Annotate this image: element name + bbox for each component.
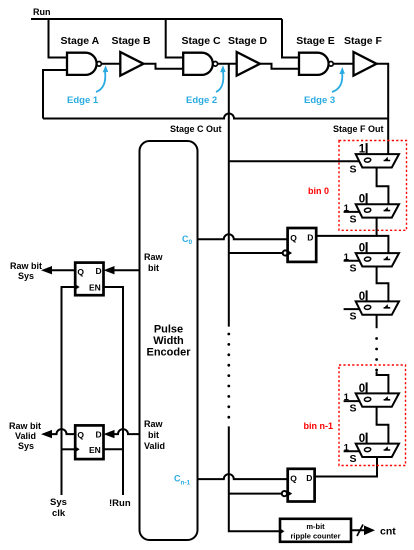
wire constant input stub xyxy=(366,193,368,204)
svg-text:Pulse: Pulse xyxy=(154,324,183,336)
svg-text:S: S xyxy=(349,311,356,323)
svg-text:0: 0 xyxy=(359,433,365,445)
mux M6 (bin n-1 bottom) xyxy=(344,433,399,465)
wire select S stub xyxy=(344,211,361,213)
pin 1 input marker xyxy=(384,446,391,451)
pin 1 input marker xyxy=(384,256,391,260)
wire FF3 Q output arrow xyxy=(49,269,75,271)
pin 0 input marker xyxy=(364,158,371,163)
wire select S stub xyxy=(344,260,361,262)
svg-text:D: D xyxy=(307,233,313,243)
svg-text:0: 0 xyxy=(359,243,365,255)
wire chain resume into mux5 xyxy=(377,372,389,394)
pin 0 input marker xyxy=(364,257,371,262)
svg-text:Sys: Sys xyxy=(50,497,67,508)
wire FF3 clock from Sys clk vertical xyxy=(62,287,76,495)
box bin n-1 (red dashed) xyxy=(339,365,406,466)
svg-text:Stage D: Stage D xyxy=(228,35,268,47)
svg-text:bin n-1: bin n-1 xyxy=(304,421,334,431)
mux body trapezoid xyxy=(356,204,399,217)
wire Run rail xyxy=(31,18,282,20)
mux M4 xyxy=(344,290,399,322)
svg-text:1: 1 xyxy=(344,252,350,263)
wire FF3 EN to !Run vertical xyxy=(104,287,124,495)
wire F output down right side (Stage F Out vertical) xyxy=(377,64,389,154)
svg-text:1: 1 xyxy=(359,144,366,156)
pin 0 input marker xyxy=(364,208,371,213)
svg-text:1: 1 xyxy=(344,392,350,403)
wire mux3 output to mux4 xyxy=(377,267,389,302)
flip-flop FF1 (bin 0 capture) xyxy=(288,228,317,262)
svg-text:Encoder: Encoder xyxy=(146,347,191,359)
wire FF2 clock line from Stage C Out vertical xyxy=(229,493,282,495)
svg-text:0: 0 xyxy=(359,291,365,303)
wire constant input stub xyxy=(366,143,368,154)
svg-text:0: 0 xyxy=(359,383,365,395)
bubble FF2 inverted clock xyxy=(282,491,287,496)
mux body trapezoid xyxy=(356,253,399,266)
wire select S stub xyxy=(344,450,361,452)
wire D output to E bottom input xyxy=(260,64,299,69)
svg-text:S: S xyxy=(349,214,356,226)
svg-text:Sys: Sys xyxy=(18,271,34,281)
dots mux chain ellipsis xyxy=(375,337,378,371)
svg-text:Q: Q xyxy=(77,267,84,277)
svg-text:bit: bit xyxy=(148,430,159,440)
wire constant input stub xyxy=(366,290,368,301)
mux M5 (bin n-1 top) xyxy=(344,382,399,414)
svg-text:Stage C: Stage C xyxy=(181,35,221,47)
pin 1 input marker xyxy=(384,207,391,212)
svg-text:clk: clk xyxy=(52,508,66,519)
mux body trapezoid xyxy=(356,393,399,406)
svg-text:Stage C Out: Stage C Out xyxy=(170,124,222,134)
arrow Edge 1 xyxy=(96,71,105,92)
wire constant input stub xyxy=(366,242,368,253)
svg-text:Q: Q xyxy=(290,233,297,243)
wire feedback rail with hop over Stage C Out vertical xyxy=(43,114,388,119)
svg-text:Raw: Raw xyxy=(144,252,164,262)
pin 1 input marker xyxy=(384,304,391,309)
wire select S stub xyxy=(344,400,361,402)
svg-text:Edge 1: Edge 1 xyxy=(67,95,99,106)
svg-text:Sys: Sys xyxy=(18,441,34,451)
svg-text:Stage F Out: Stage F Out xyxy=(333,124,384,134)
svg-text:Q: Q xyxy=(290,474,297,484)
pin 1 input marker xyxy=(384,396,391,401)
wire feedback to Stage A bottom input xyxy=(43,70,67,119)
box bin 0 (red dashed) xyxy=(339,141,407,231)
svg-text:Raw bit: Raw bit xyxy=(9,421,41,431)
wire Stage C Out vertical (solid upper) xyxy=(228,64,230,327)
mux body trapezoid xyxy=(356,301,399,314)
svg-text:Stage F: Stage F xyxy=(344,35,383,47)
svg-text:ripple counter: ripple counter xyxy=(290,532,340,541)
svg-text:Valid: Valid xyxy=(144,441,165,451)
wire select S stub xyxy=(344,308,361,310)
arrow Edge 2 xyxy=(216,71,223,92)
wire A output to B xyxy=(101,63,120,65)
flip-flop FF4 (Raw bit Valid sync) xyxy=(75,425,103,459)
wire PWE Raw bit Valid to FF4 D arrow with hop over !Run line xyxy=(110,429,140,434)
svg-text:D: D xyxy=(96,266,102,276)
wire Stage C Out vertical dots xyxy=(227,333,230,419)
svg-text:m-bit: m-bit xyxy=(306,522,325,531)
wire mux2 output to mux3 and FF1 D junction xyxy=(377,217,389,253)
wire Cn-1 line PWE to FF2 with hop xyxy=(198,474,288,479)
wire select S from Stage C Out xyxy=(229,160,359,162)
svg-text:D: D xyxy=(306,473,312,483)
arrow cnt xyxy=(364,526,375,536)
wire FF2 D line to mux6 output xyxy=(315,457,377,476)
mux M3 xyxy=(344,242,399,274)
svg-text:Stage A: Stage A xyxy=(61,35,100,47)
svg-text:bin 0: bin 0 xyxy=(308,186,329,196)
svg-text:D: D xyxy=(96,430,102,440)
svg-text:Valid: Valid xyxy=(15,431,36,441)
wire run drop to Stage A top input xyxy=(49,19,68,58)
pin 0 input marker xyxy=(364,305,371,310)
svg-text:Edge 2: Edge 2 xyxy=(186,95,217,106)
svg-text:S: S xyxy=(349,163,356,175)
bubble FF1 inverted clock xyxy=(283,250,288,255)
wire C0 line PWE to FF1 with hop xyxy=(198,234,288,239)
svg-text:Stage B: Stage B xyxy=(111,35,151,47)
svg-text:1: 1 xyxy=(344,203,350,214)
svg-text:S: S xyxy=(349,403,356,415)
wire FF4 clock junction xyxy=(62,448,76,450)
wire PWE Raw bit to FF3 D arrow xyxy=(110,269,140,271)
pin 0 input marker xyxy=(364,397,371,402)
wire FF4 EN junction xyxy=(104,448,124,450)
wire run drop to Stage E top input xyxy=(282,19,299,58)
svg-text:EN: EN xyxy=(89,283,101,293)
svg-text:EN: EN xyxy=(89,445,101,455)
svg-text:Width: Width xyxy=(153,335,184,347)
svg-text:cnt: cnt xyxy=(380,526,396,538)
svg-text:Raw: Raw xyxy=(144,419,164,429)
svg-text:Raw bit: Raw bit xyxy=(10,261,42,271)
wire run drop to Stage C top input xyxy=(166,19,184,58)
svg-text:0: 0 xyxy=(359,194,365,206)
pin 0 input marker xyxy=(364,447,371,452)
arrow Edge 3 xyxy=(332,72,342,92)
wire FF1 D line to mux chain xyxy=(316,235,376,237)
svg-text:!Run: !Run xyxy=(109,498,131,509)
svg-text:S: S xyxy=(349,262,356,274)
svg-text:bit: bit xyxy=(148,263,159,273)
mux M1 (bin 0 top) xyxy=(229,143,399,175)
wire constant input stub xyxy=(366,433,368,444)
wire Stage C Out vertical (solid lower) to ripple counter xyxy=(229,426,280,531)
block m-bit ripple counter xyxy=(280,519,351,542)
mux body trapezoid xyxy=(356,444,399,457)
mux body trapezoid xyxy=(356,154,399,167)
wire C output to D xyxy=(218,63,237,65)
wire counter output with bus slash xyxy=(351,529,368,531)
svg-text:Q: Q xyxy=(77,430,84,440)
svg-text:S: S xyxy=(349,453,356,465)
wire FF4 Q output arrow with hop over Sys clk line xyxy=(49,429,75,434)
wire mux5 output to mux6 xyxy=(377,407,389,444)
wire B output to C bottom input xyxy=(144,64,184,69)
svg-text:Edge 3: Edge 3 xyxy=(304,95,335,106)
mux M2 (bin 0 bottom) xyxy=(344,193,399,225)
svg-text:Run: Run xyxy=(33,7,51,17)
wire E output to F xyxy=(333,63,353,65)
svg-text:1: 1 xyxy=(344,442,350,453)
svg-text:Stage E: Stage E xyxy=(296,35,335,47)
pin 1 input marker xyxy=(384,157,391,162)
flip-flop FF2 (bin n-1 capture) xyxy=(288,469,315,502)
wire mux4 output (to dots) xyxy=(376,315,378,328)
wire constant input stub xyxy=(366,382,368,393)
wire mux1 output to mux2 xyxy=(377,168,389,205)
block Pulse Width Encoder U1 xyxy=(140,141,198,540)
wire FF1 clock line from Stage C Out vertical xyxy=(229,252,283,254)
flip-flop FF3 (Raw bit sync) xyxy=(75,263,103,296)
